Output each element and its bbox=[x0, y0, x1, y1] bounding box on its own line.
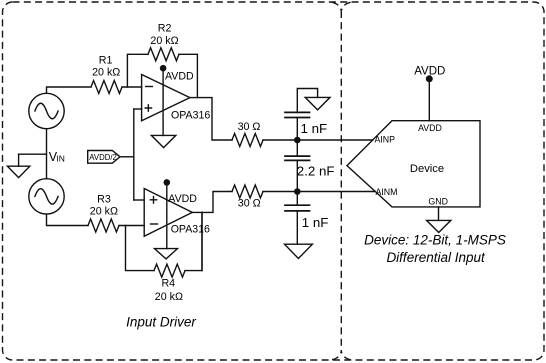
svg-text:AVDD: AVDD bbox=[168, 193, 197, 205]
svg-text:AVDD/2: AVDD/2 bbox=[89, 153, 117, 162]
svg-text:20 kΩ: 20 kΩ bbox=[150, 35, 178, 47]
svg-text:Device: Device bbox=[410, 163, 444, 175]
svg-text:1 nF: 1 nF bbox=[302, 215, 329, 230]
svg-text:IN: IN bbox=[56, 153, 65, 163]
svg-text:AINP: AINP bbox=[375, 134, 396, 144]
svg-text:OPA316: OPA316 bbox=[171, 223, 210, 235]
svg-text:OPA316: OPA316 bbox=[171, 110, 210, 122]
svg-text:Input Driver: Input Driver bbox=[126, 314, 196, 329]
svg-text:30 Ω: 30 Ω bbox=[238, 198, 261, 210]
svg-text:20 kΩ: 20 kΩ bbox=[90, 205, 118, 217]
svg-text:AVDD: AVDD bbox=[165, 70, 194, 82]
svg-text:AVDD: AVDD bbox=[414, 65, 445, 77]
svg-text:Device: 12-Bit, 1-MSPS: Device: 12-Bit, 1-MSPS bbox=[364, 232, 506, 247]
svg-text:30 Ω: 30 Ω bbox=[238, 121, 261, 133]
svg-text:R3: R3 bbox=[97, 194, 111, 206]
svg-text:20 kΩ: 20 kΩ bbox=[92, 67, 120, 79]
svg-text:20 kΩ: 20 kΩ bbox=[155, 291, 183, 303]
svg-text:Differential Input: Differential Input bbox=[386, 250, 486, 265]
svg-text:GND: GND bbox=[428, 196, 448, 206]
svg-text:2.2 nF: 2.2 nF bbox=[297, 164, 335, 179]
svg-text:R2: R2 bbox=[158, 23, 172, 35]
svg-text:R1: R1 bbox=[99, 54, 113, 66]
svg-text:AINM: AINM bbox=[376, 187, 398, 197]
svg-text:R4: R4 bbox=[161, 278, 175, 290]
svg-text:AVDD: AVDD bbox=[418, 123, 442, 133]
svg-text:1 nF: 1 nF bbox=[301, 121, 328, 136]
